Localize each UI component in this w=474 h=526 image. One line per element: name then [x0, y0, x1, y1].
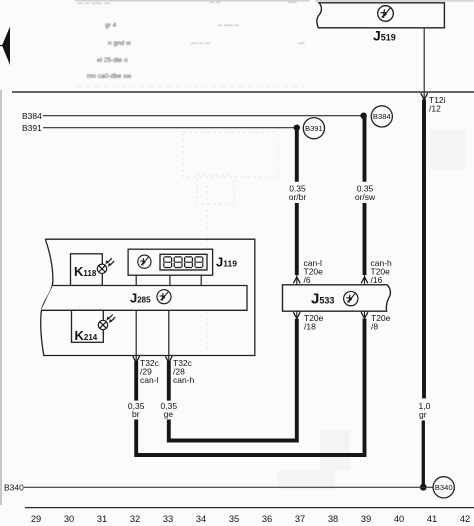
svg-text:B384: B384 [22, 111, 42, 121]
svg-text:mn ca0-dbe sw: mn ca0-dbe sw [87, 73, 131, 80]
pin arrow T12i/12 [421, 93, 428, 100]
wire: J119 to J285 stub 3 [200, 275, 202, 285]
svg-text:gr: gr [419, 410, 427, 420]
wire: J519 down lead (thin) [423, 28, 425, 99]
svg-text:n gnd w: n gnd w [108, 40, 131, 47]
wire: CAN-high 0.35 or/sw upper segment [363, 116, 367, 182]
svg-text:or/sw: or/sw [355, 192, 376, 202]
diagnostic symbol K in circle (J519) [378, 6, 394, 22]
node circle B391 [303, 118, 324, 139]
svg-text:30: 30 [64, 514, 74, 524]
diagnostic symbol K in circle (J285) [157, 290, 171, 304]
svg-text:gr 4: gr 4 [105, 22, 117, 29]
svg-text:B340: B340 [435, 483, 453, 492]
wire: 0,35 ge upper segment [167, 361, 171, 401]
svg-text:32: 32 [130, 514, 140, 524]
svg-text:/16: /16 [371, 275, 383, 285]
svg-text:B391: B391 [305, 124, 323, 133]
svg-text:B384: B384 [373, 112, 391, 121]
svg-text:/12: /12 [429, 104, 441, 114]
svg-text:B391: B391 [22, 123, 42, 133]
wire: 1.0 gr wire lower segment [422, 421, 425, 488]
wire: CAN-low 0.35 or/br upper segment [295, 128, 299, 182]
wire: br wire routing (J533 T20e/8 down, left to cluster) [136, 319, 364, 455]
svg-text:42: 42 [460, 514, 470, 524]
display unit (seven segment) in J119 [160, 254, 207, 270]
wire: B340 connection line [24, 486, 433, 488]
junction dot B391 [294, 125, 300, 131]
svg-text:38: 38 [328, 514, 338, 524]
wire: current-flow reference arrow (top left) [0, 27, 10, 66]
wire: J119 to J285 stub 2 [169, 275, 171, 285]
pin arrow out of J533 (T20e/18) [296, 311, 298, 319]
wire: CAN-high 0.35 or/sw lower segment [363, 203, 367, 275]
svg-text:or/br: or/br [289, 192, 307, 202]
lamp symbol K214 [98, 315, 115, 330]
lamp symbol K118 [97, 258, 114, 273]
svg-text:39: 39 [361, 514, 371, 524]
component J519 onboard supply control unit box [317, 3, 444, 28]
svg-text:ge: ge [164, 409, 174, 419]
pin arrow into J533 (can-h) [364, 275, 366, 285]
svg-text:-- ---- --: -- ---- -- [218, 22, 239, 29]
junction dot B384 [360, 113, 366, 119]
node circle B340 [433, 477, 454, 498]
component K214 warning lamp box [72, 310, 104, 342]
pin arrow into J533 (can-l) [296, 275, 298, 285]
node circle B384 [371, 106, 392, 127]
track numbers 29-42 [31, 514, 470, 524]
wire: B391 connection line [43, 127, 297, 129]
wire: J285 to cluster edge lead 2 [168, 310, 170, 361]
svg-text:35: 35 [229, 514, 239, 524]
svg-text:/6: /6 [304, 275, 311, 285]
pin arrow out of cluster (T32c/29) [133, 356, 140, 362]
component J285 instrument cluster control unit box [41, 286, 247, 311]
svg-text:37: 37 [295, 514, 305, 524]
svg-text:34: 34 [196, 514, 206, 524]
wire: 1.0 gr wire upper segment (thick) [422, 100, 426, 399]
svg-text:/18: /18 [304, 321, 316, 331]
svg-text:can-l: can-l [140, 375, 159, 385]
diagnostic symbol K in circle (J533) [344, 291, 358, 305]
component K118 warning lamp box [71, 254, 103, 286]
svg-text:31: 31 [97, 514, 107, 524]
wire: CAN-low 0.35 or/br lower segment [295, 203, 299, 275]
svg-text:33: 33 [163, 514, 173, 524]
svg-text:---: --- [298, 40, 305, 47]
svg-text:/8: /8 [371, 321, 378, 331]
component J533 data bus diagnostic interface box [283, 285, 391, 311]
wire: J285 to cluster edge lead 1 [135, 310, 137, 361]
diagnostic symbol K in circle (J119) [138, 255, 151, 268]
border: bottom track line [25, 507, 474, 509]
wire: B384 connection line [43, 115, 364, 117]
svg-text:el 25-dte o: el 25-dte o [97, 57, 128, 64]
component J119 multi-function indicator box [128, 249, 213, 275]
svg-text:B340: B340 [4, 482, 24, 492]
instrument cluster outline (torn edge) [41, 239, 255, 355]
wire: ge wire routing (J533 T20e/18 down, left to cluster) [169, 319, 297, 441]
pin arrow out of cluster (T32c/28) [165, 356, 172, 362]
svg-text:29: 29 [31, 514, 41, 524]
svg-text:--- -- --: --- -- -- [191, 40, 210, 47]
junction dot on B340 line [420, 484, 427, 491]
svg-text:br: br [132, 409, 140, 419]
wire: main bus line (horizontal, y=92) [12, 91, 474, 93]
svg-text:36: 36 [262, 514, 272, 524]
pin arrow out of J533 (T20e/8) [364, 311, 366, 319]
svg-text:41: 41 [427, 514, 437, 524]
wire: 0,35 br upper segment [134, 361, 138, 401]
svg-text:can-h: can-h [173, 375, 195, 385]
svg-text:40: 40 [394, 514, 404, 524]
wire: J119 to J285 stub 1 [135, 275, 137, 285]
